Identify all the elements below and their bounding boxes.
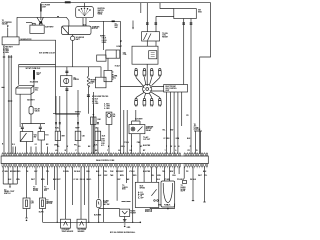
wire second module feed [141, 3, 174, 32]
wires big box feeds [138, 167, 157, 183]
long mid verticals [124, 110, 127, 154]
svg-text:4T IN SOME TRUCKS: 4T IN SOME TRUCKS [92, 95, 109, 98]
svg-text:DASH CONTROL CONN: DASH CONTROL CONN [96, 159, 115, 162]
svg-text:GRY: GRY [104, 175, 108, 177]
svg-text:FUEL: FUEL [55, 128, 59, 130]
splice smudge on line [112, 21, 115, 23]
bulkhead top pin row [2, 154, 208, 156]
ign control big box [135, 182, 159, 207]
dot under U box [167, 208, 169, 210]
wire x117 [116, 167, 118, 201]
svg-text:BLK: BLK [203, 171, 207, 173]
svg-text:DIST: DIST [42, 6, 47, 8]
svg-text:RELAY: RELAY [146, 129, 152, 132]
svg-text:PNK: PNK [110, 171, 114, 173]
wire stub x72.5 [72, 167, 74, 205]
wire top power bus [41, 3, 211, 154]
svg-text:RED: RED [133, 175, 137, 177]
svg-text:BRN: BRN [120, 175, 124, 177]
wire therm horizontal [53, 114, 80, 117]
svg-text:BR: BR [46, 144, 49, 146]
dashdot mark [122, 201, 131, 203]
svg-text:TEMP SENSOR: TEMP SENSOR [62, 231, 75, 233]
svg-text:W: W [65, 150, 67, 152]
svg-text:SUPP: SUPP [181, 191, 186, 193]
inline connector ticks module [182, 23, 192, 24]
starter relay box [129, 110, 145, 154]
svg-text:PR: PR [186, 115, 189, 117]
svg-text:LB: LB [130, 150, 133, 152]
svg-text:BLK/PNK: BLK/PNK [143, 145, 151, 147]
svg-text:LT GN: LT GN [74, 179, 80, 181]
svg-text:HI ALT: HI ALT [115, 65, 121, 68]
wire generator up [16, 17, 18, 37]
svg-text:ENG: ENG [122, 189, 126, 191]
wire x132.7 rail [132, 167, 134, 223]
wire x110 [99, 208, 120, 210]
ground dot [124, 226, 126, 228]
svg-text:GRD: GRD [127, 227, 131, 229]
ignition coil right box [96, 55, 107, 88]
wire switch boxes to strip [20, 132, 41, 154]
wire branch to ignition module [160, 3, 174, 9]
oil pressure switch [61, 76, 72, 87]
svg-text:UNIT: UNIT [166, 90, 171, 92]
switch box 2 [38, 132, 45, 141]
svg-text:SOL: SOL [35, 89, 38, 91]
svg-text:4– BRN: 4– BRN [3, 51, 10, 54]
svg-text:MOTOR: MOTOR [92, 28, 99, 30]
solenoid box [16, 80, 34, 95]
svg-text:G: G [175, 150, 177, 152]
wire left pair verticals [8, 55, 12, 154]
sender box 3 [95, 127, 101, 154]
spark plug 8 bottom [151, 92, 161, 106]
component stack right [183, 181, 187, 184]
svg-text:SENDER: SENDER [78, 231, 86, 233]
svg-text:BLK: BLK [187, 138, 191, 140]
svg-text:D– OFF: D– OFF [138, 197, 144, 199]
wire right of solenoid down [30, 94, 32, 106]
wire ignition switch drop [84, 3, 86, 7]
wire text x103.4 [102, 167, 104, 223]
svg-text:ORG: ORG [172, 175, 176, 177]
svg-text:GRN: GRN [176, 138, 180, 140]
svg-text:SW: SW [34, 136, 37, 138]
svg-text:YEL: YEL [162, 130, 165, 132]
small module box [120, 209, 130, 216]
svg-text:BK: BK [88, 146, 91, 148]
svg-text:W: W [171, 146, 173, 148]
bottom rail [43, 221, 141, 223]
wire junction x56.8 [57, 16, 59, 17]
svg-text:CUT OUT: CUT OUT [143, 139, 151, 141]
arrow to generator [7, 25, 9, 28]
pin stubs [3, 152, 207, 168]
svg-text:GRY: GRY [117, 179, 121, 181]
svg-text:L: L [124, 146, 125, 148]
svg-text:PR: PR [186, 171, 189, 173]
svg-text:4 YL: 4 YL [101, 144, 104, 147]
spark plug 2 top [143, 69, 146, 85]
svg-text:BLK WHT: BLK WHT [27, 100, 35, 102]
svg-text:W: W [196, 150, 198, 152]
fuse box2 [40, 198, 46, 222]
oval fuse component [96, 200, 101, 208]
fuel gauge U box [161, 181, 175, 207]
wire generator to starter feed [17, 17, 69, 26]
junction dot [93, 114, 95, 116]
svg-text:CHK: CHK [97, 119, 101, 121]
bulkhead bottom pin row [2, 164, 208, 167]
ignition module top right U8 [174, 9, 197, 19]
svg-text:LG: LG [57, 146, 60, 148]
inline connectors pair [21, 127, 42, 128]
svg-text:BLK/PNK: BLK/PNK [94, 214, 102, 216]
svg-text:LT BLU: LT BLU [129, 171, 135, 173]
svg-text:W/R: W/R [62, 135, 66, 137]
svg-text:BLK: BLK [94, 145, 98, 147]
svg-text:R G: R G [12, 144, 16, 146]
svg-text:PR: PR [188, 150, 191, 152]
spark plug 6 bottom [143, 93, 146, 106]
wire ignition right branch [89, 21, 120, 50]
svg-text:DG: DG [78, 146, 81, 148]
wire sensorB feed [80, 167, 82, 219]
svg-text:G: G [175, 146, 177, 148]
svg-text:PRESS: PRESS [73, 79, 79, 81]
svg-text:NOT ALL WIRING SHOWN IN ALL: NOT ALL WIRING SHOWN IN ALL [110, 231, 135, 234]
wire AC underline [194, 131, 202, 154]
svg-text:MOTOR: MOTOR [46, 203, 53, 205]
svg-text:6– RED: 6– RED [104, 108, 110, 110]
wire bus y123.6 [21, 124, 45, 127]
wire box2 feed [42, 167, 44, 198]
wire merge group left [3, 167, 17, 187]
wires module down [184, 19, 191, 154]
svg-text:SPEED: SPEED [140, 187, 146, 189]
resistance wire spring [87, 76, 89, 87]
svg-text:BLK: BLK [157, 179, 161, 181]
svg-text:P: P [76, 150, 78, 152]
svg-text:BATTERY: BATTERY [45, 26, 54, 29]
svg-text:W GRN: W GRN [63, 171, 69, 173]
svg-text:SET AT CURB IDLE: SET AT CURB IDLE [26, 67, 42, 70]
svg-text:LT GRN: LT GRN [164, 138, 171, 140]
svg-text:BLK: BLK [102, 135, 106, 137]
arrow on dist wire [120, 41, 122, 43]
svg-text:DK BLU: DK BLU [74, 171, 81, 173]
wire x126 tick [125, 167, 127, 183]
wire stub x47.5 [47, 167, 49, 185]
splice dash left [2, 57, 6, 87]
label top wire RED [65, 1, 71, 3]
svg-text:WHT: WHT [31, 179, 36, 181]
svg-text:3 RED: 3 RED [102, 42, 108, 44]
svg-text:ORG: ORG [86, 171, 90, 173]
svg-text:B/W: B/W [170, 130, 174, 132]
wires below strip [3, 167, 204, 223]
svg-text:B: B [108, 146, 110, 148]
svg-text:B/W: B/W [170, 171, 174, 173]
wire U box to rail [150, 204, 175, 209]
svg-text:GRN: GRN [157, 175, 161, 177]
svg-text:SWITCH: SWITCH [4, 193, 11, 195]
TAC box [142, 32, 160, 41]
svg-text:SW: SW [113, 116, 116, 118]
wire TO DIST vertical [119, 21, 121, 153]
svg-text:SOL: SOL [113, 77, 116, 79]
wire battery Y [37, 16, 43, 23]
svg-text:2.2: 2.2 [90, 83, 92, 85]
wire rail x57.2 [56, 167, 58, 223]
sensor box A [61, 219, 71, 228]
svg-text:MOD: MOD [198, 11, 203, 13]
svg-text:LT BLU: LT BLU [123, 142, 129, 144]
rail junction dots [57, 222, 58, 223]
ignition switch S1 [76, 7, 94, 18]
wire component stack feed [183, 167, 185, 179]
svg-text:BLK/WHT: BLK/WHT [135, 118, 143, 120]
dot under box1 [26, 220, 28, 222]
switch box vacuum [20, 132, 33, 142]
choke heater box [91, 105, 97, 154]
wire generator output right [19, 40, 55, 64]
wire stub x54.5 [54, 167, 56, 190]
carb stepper box [104, 58, 113, 82]
svg-text:GAUGE: GAUGE [2, 23, 9, 26]
fusible link battery [40, 3, 42, 16]
svg-text:FILTER: FILTER [130, 212, 136, 214]
svg-text:NOT A WIRE COLOR: NOT A WIRE COLOR [39, 51, 56, 54]
svg-text:GN: GN [118, 150, 121, 152]
svg-text:GY: GY [35, 144, 38, 146]
svg-text:VIEW): VIEW) [98, 14, 103, 16]
wire arrow to generator [7, 28, 9, 37]
svg-text:MODULE: MODULE [145, 211, 153, 213]
wire coil feeds [67, 86, 94, 153]
spark plug 1 top [135, 69, 144, 87]
wire solenoid down [19, 94, 21, 127]
spark plug 4 top [152, 69, 162, 86]
horn relay tall box [106, 112, 112, 154]
svg-text:Y: Y [165, 150, 167, 152]
choke bar thick [33, 70, 35, 80]
svg-text:SW: SW [44, 190, 47, 192]
battery B1 [26, 23, 44, 34]
wire to panel arrow [9, 187, 11, 189]
coil bus y67 [19, 67, 101, 77]
svg-text:Y: Y [166, 146, 168, 148]
svg-text:TAN: TAN [110, 174, 114, 177]
ground symbol [123, 216, 127, 224]
wire box1 feed [26, 167, 28, 198]
wires coil feeds down [146, 3, 148, 32]
wire x204.5 [204, 167, 206, 202]
wire oval fuse feed [98, 167, 100, 223]
fuse box1 [23, 198, 30, 218]
svg-text:BL/PG: BL/PG [39, 211, 45, 213]
wire stub x36 [35, 167, 37, 185]
wire arrow stub [132, 21, 134, 28]
starter motor M1 [62, 26, 92, 35]
svg-text:ILLUM: ILLUM [33, 190, 39, 192]
svg-text:OIL: OIL [95, 128, 98, 130]
extra strip feed stubs [13, 147, 48, 154]
svg-text:B: B [178, 146, 180, 148]
wire ends right [192, 201, 206, 202]
wire generator bottom left [3, 45, 5, 154]
generator G1 [2, 37, 19, 45]
coil assembly boxes [106, 41, 158, 64]
svg-text:C/B: C/B [82, 135, 86, 137]
svg-text:TCS: TCS [45, 135, 49, 137]
svg-text:P: P [131, 146, 133, 148]
inline capacitor component [29, 107, 33, 124]
wire connectors to switch [22, 129, 40, 132]
spark plug 3 top [150, 69, 154, 85]
starter ground circle [70, 35, 74, 68]
svg-text:BLK: BLK [167, 205, 171, 207]
wire stub x83 [84, 167, 86, 205]
wires U box feeds [165, 167, 180, 181]
svg-text:PNK: PNK [137, 142, 141, 144]
spark plug 5 bottom [135, 93, 144, 107]
svg-text:GRN: GRN [16, 179, 20, 181]
bulkhead connector body [1, 156, 208, 164]
sensor box B [77, 219, 86, 228]
svg-text:BRN: BRN [41, 179, 45, 181]
svg-text:GRN: GRN [158, 205, 162, 207]
wire ignition switch to starter [83, 18, 120, 50]
svg-text:YEL: YEL [104, 171, 107, 173]
arrow connector mid [132, 28, 134, 30]
carb enclosure [19, 65, 80, 115]
svg-text:W: W [67, 146, 69, 148]
EI control box [164, 85, 188, 93]
svg-text:P: P [190, 146, 192, 148]
svg-text:B WHT: B WHT [117, 46, 123, 48]
wires EI control down [167, 92, 182, 154]
wire rail x88.8 [88, 167, 90, 223]
svg-text:RESIST: RESIST [162, 37, 169, 39]
svg-text:PPL: PPL [74, 145, 77, 147]
sender box 2 [55, 90, 99, 154]
svg-text:VAC SW: VAC SW [103, 203, 110, 206]
wire x193 [192, 167, 194, 201]
svg-text:COIL: COIL [123, 54, 127, 56]
svg-text:WHT: WHT [198, 175, 203, 177]
svg-text:BLK: BLK [8, 179, 12, 181]
inline connector ticks coil [146, 23, 157, 24]
svg-text:BLK: BLK [96, 171, 100, 173]
svg-text:BP: BP [143, 150, 146, 152]
sender box 1 [55, 96, 60, 154]
wire sensorA feed [65, 167, 67, 219]
inline connector ticks [65, 71, 90, 96]
svg-text:DK BLU: DK BLU [190, 179, 197, 181]
spark plug 7 bottom [149, 93, 153, 106]
distributor [120, 64, 163, 93]
svg-text:LTR: LTR [31, 203, 35, 205]
